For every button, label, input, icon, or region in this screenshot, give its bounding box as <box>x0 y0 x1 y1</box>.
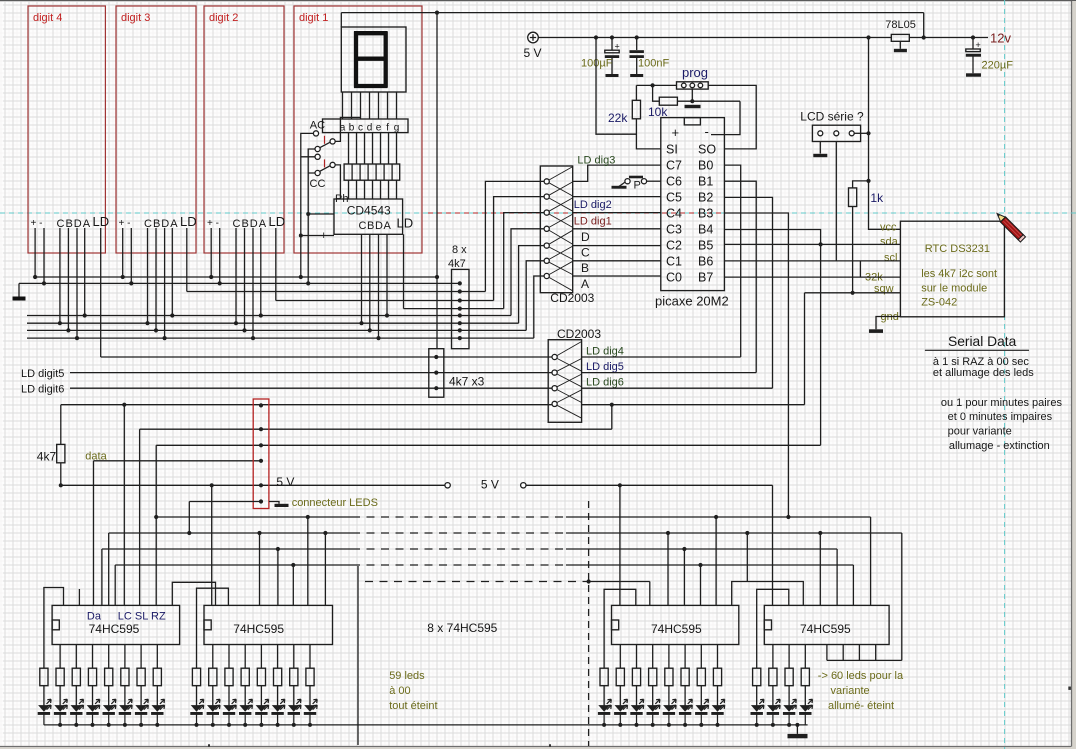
RTC gnd pin wire and ground <box>876 317 900 330</box>
7-segment display DIS1 <box>341 27 406 92</box>
around wire box1 output to R row1 <box>44 588 64 669</box>
svg-text:-: - <box>705 124 709 139</box>
wire 5V drop to SI network <box>596 38 636 135</box>
resistor R3 1k <box>853 181 869 293</box>
svg-text:scl: scl <box>884 252 897 264</box>
svg-text:LD: LD <box>269 214 286 229</box>
svg-text:et allumage des leds: et allumage des leds <box>933 367 1034 379</box>
svg-text:+ -: + - <box>207 218 219 229</box>
svg-text:CBDA: CBDA <box>233 218 268 230</box>
switch SW2 <box>315 154 320 159</box>
rail LD dig6 net <box>70 387 552 389</box>
svg-text:B1: B1 <box>698 175 713 189</box>
74HC595 U6 box <box>204 605 333 644</box>
svg-text:P: P <box>634 180 641 192</box>
svg-text:CD2003: CD2003 <box>550 291 594 305</box>
svg-text:22k: 22k <box>608 111 628 125</box>
digit1 + pin wire to + rail <box>300 236 302 278</box>
digit1 LD pin wire <box>403 234 405 308</box>
rail 5V distribution right <box>521 483 526 488</box>
svg-text:5 V: 5 V <box>481 478 499 492</box>
digit3 LD pin wire to its rail <box>186 228 188 292</box>
svg-text:CD2003: CD2003 <box>557 327 601 341</box>
svg-text:5 V: 5 V <box>524 46 542 60</box>
rail connector pin3 net <box>156 445 820 605</box>
svg-text:10k: 10k <box>648 105 668 119</box>
mouse pencil cursor <box>994 211 1025 242</box>
wire prog pin1 net <box>636 84 676 86</box>
svg-text:CC: CC <box>310 178 326 190</box>
rail connector pin6 net <box>189 502 261 534</box>
red dashed print-margin segment <box>428 212 788 214</box>
svg-text:+: + <box>976 40 981 50</box>
bus row 533 <box>109 533 352 605</box>
vcc vertical from 5V rail <box>869 38 901 230</box>
svg-text:LD digit5: LD digit5 <box>21 368 64 380</box>
svg-text:B4: B4 <box>698 223 713 237</box>
svg-text:allumage - extinction: allumage - extinction <box>949 440 1050 452</box>
svg-text:C0: C0 <box>666 271 682 285</box>
+ rail <box>35 276 437 278</box>
svg-text:f: f <box>386 123 389 134</box>
rail B bus <box>27 329 526 331</box>
svg-text:SO: SO <box>698 143 716 157</box>
svg-text:220µF: 220µF <box>982 60 1014 72</box>
LED common cathode rail <box>44 724 808 726</box>
LCD pin1 ground <box>819 142 821 154</box>
canvas right border <box>1072 1 1076 749</box>
bus row 581 <box>365 581 589 583</box>
5V rail wire <box>538 37 891 39</box>
svg-text:CBDA: CBDA <box>57 218 92 230</box>
svg-text:C3: C3 <box>666 223 682 237</box>
digit4 LD pin wire <box>100 228 102 357</box>
svg-text:LD dig1: LD dig1 <box>574 216 612 228</box>
black dashed page-split vertical (bottom) <box>588 501 590 746</box>
bus row 517 (solid-dash-solid) <box>156 516 352 518</box>
svg-text:LD: LD <box>397 216 414 231</box>
svg-text:LC SL RZ: LC SL RZ <box>118 611 166 623</box>
ground GND1 <box>18 283 20 296</box>
wire LD dig5 row to B1 <box>582 372 757 374</box>
svg-text:+ -: + - <box>31 218 43 229</box>
5V supply symbol <box>528 32 539 43</box>
74HC595 U5 box <box>52 605 180 644</box>
digit 2 red box <box>204 6 284 253</box>
capacitor C2 100nF <box>636 38 638 75</box>
digit4 pin wires down to rails <box>35 228 85 338</box>
CD2003 U3 box <box>540 166 572 293</box>
canvas bottom border <box>0 747 1072 749</box>
picaxe right side wires B0-B3 <box>724 165 788 517</box>
LCD pin2 serial wire <box>835 142 837 261</box>
digit 4 red box <box>28 6 105 253</box>
bus row 565 <box>115 565 352 605</box>
svg-text:prog: prog <box>682 65 708 80</box>
wire LCD pin3 to vcc vertical <box>854 132 868 134</box>
resistor + LED columns group4 <box>751 645 813 725</box>
wire pin1 net drop to 74HC595 <box>123 405 125 606</box>
svg-text:g: g <box>394 123 400 134</box>
svg-text:variante: variante <box>831 685 870 697</box>
cyan dashed page-split horizontal line <box>0 212 1076 214</box>
wire C4 row <box>573 212 661 214</box>
svg-text:LD dig4: LD dig4 <box>586 346 624 358</box>
svg-text:d: d <box>367 123 373 134</box>
svg-text:A: A <box>581 277 589 291</box>
svg-text:D: D <box>581 230 590 244</box>
wire C5 row <box>573 196 661 198</box>
svg-text:8 x 74HC595: 8 x 74HC595 <box>427 621 497 635</box>
capacitor C1 100uF <box>611 38 613 75</box>
CD2003 U4 internal driver diagonals <box>557 342 582 419</box>
svg-text:B7: B7 <box>698 271 713 285</box>
svg-text:CBDA: CBDA <box>144 218 179 230</box>
svg-text:12v: 12v <box>990 31 1011 46</box>
svg-text:4k7 x3: 4k7 x3 <box>449 375 485 389</box>
resistor R4 4k7 <box>57 444 65 462</box>
svg-text:ZS-042: ZS-042 <box>921 297 957 309</box>
svg-text:74HC595: 74HC595 <box>233 622 284 636</box>
rail LD digit2 net <box>276 300 494 302</box>
cascade bridge box3-box4 <box>732 582 804 606</box>
svg-text:allumé- éteint: allumé- éteint <box>828 700 894 712</box>
wire 5V drop to box3 <box>619 485 621 605</box>
wires network to CD4543 <box>349 180 397 199</box>
svg-text:C2: C2 <box>666 239 682 253</box>
svg-text:vcc: vcc <box>880 222 897 234</box>
svg-text:78L05: 78L05 <box>885 19 916 31</box>
bus row 549 <box>102 549 352 605</box>
wire LD dig4 row to B0 <box>582 356 741 358</box>
svg-text:59 leds: 59 leds <box>389 670 425 682</box>
svg-text:Da: Da <box>87 611 102 623</box>
svg-text:digit 3: digit 3 <box>121 12 150 24</box>
svg-text:CD4543: CD4543 <box>347 204 391 218</box>
resistor pack 4k7 x3 RN3 <box>429 349 444 398</box>
cyan dashed page-split vertical line <box>1004 0 1006 749</box>
digit2 pin wires down to rails <box>211 228 261 338</box>
svg-text:4k7: 4k7 <box>448 258 466 270</box>
svg-text:C: C <box>581 246 590 260</box>
rail LD dig5 net <box>70 372 552 374</box>
svg-text:Ph: Ph <box>335 193 348 205</box>
svg-text:digit 4: digit 4 <box>33 12 62 24</box>
svg-text:digit 2: digit 2 <box>209 12 238 24</box>
wire 5V drop to box2 <box>211 485 213 605</box>
wire input4 row to sqw <box>582 404 805 406</box>
rail connector pin2 net <box>140 429 612 605</box>
rail LD digit3 net <box>187 291 486 293</box>
around wire box4 output <box>757 589 789 668</box>
svg-text:74HC595: 74HC595 <box>89 622 140 636</box>
svg-text:connecteur LEDS: connecteur LEDS <box>292 497 378 509</box>
svg-text:LD dig2: LD dig2 <box>574 199 612 211</box>
svg-text:100µF: 100µF <box>581 58 613 70</box>
svg-text:CBDA: CBDA <box>359 220 392 232</box>
wire 12v input <box>909 37 988 39</box>
svg-text:B6: B6 <box>698 255 713 269</box>
rail C bus <box>27 322 519 324</box>
svg-text:picaxe 20M2: picaxe 20M2 <box>655 294 729 309</box>
- rail <box>19 282 460 284</box>
digit 3 red box <box>116 6 196 253</box>
mystery vertical near text <box>357 566 359 745</box>
rail LD dig4 net <box>101 356 552 358</box>
junction dots on 5V rail <box>594 35 871 39</box>
rail connector pin1 net <box>61 405 552 445</box>
digit1 CBDA pin wires down to rails <box>362 234 388 338</box>
svg-text:8 x: 8 x <box>452 244 467 256</box>
svg-text:AC: AC <box>310 120 325 132</box>
svg-text:b: b <box>349 123 355 134</box>
CD2003 U4 output circles <box>552 354 557 359</box>
svg-text:+ -: + - <box>119 218 131 229</box>
wire C2 row <box>573 245 661 247</box>
svg-text:pour variante: pour variante <box>948 426 1012 438</box>
svg-text:B5: B5 <box>698 239 713 253</box>
CD4543 U2 <box>334 199 403 234</box>
svg-text:LD: LD <box>93 214 110 229</box>
wire C0 row <box>573 275 661 277</box>
wire sqw row <box>805 293 901 405</box>
display segment pins <box>343 92 397 119</box>
switch SW1 (AC/CC select a) <box>313 131 318 136</box>
svg-text:B0: B0 <box>698 159 713 173</box>
svg-text:LD dig3: LD dig3 <box>577 155 615 167</box>
resistor network RN1 (7 in line) <box>344 164 400 180</box>
svg-text:SI: SI <box>666 143 678 157</box>
connecteur LEDS red box <box>253 399 269 509</box>
svg-text:74HC595: 74HC595 <box>800 622 851 636</box>
digit2 LD pin wire to its rail <box>275 228 277 301</box>
74HC595 U8 box <box>764 605 889 644</box>
svg-text:RTC DS3231: RTC DS3231 <box>925 243 990 255</box>
rail A bus <box>27 315 511 317</box>
svg-text:sur le module: sur le module <box>921 283 987 295</box>
wire switch throws to +/- rails <box>301 133 334 235</box>
12v drop wire to 4k7x3 common <box>436 13 438 349</box>
svg-text:C6: C6 <box>666 175 682 189</box>
picaxe 20M2 U1 box <box>661 118 725 291</box>
svg-text:digit 1: digit 1 <box>299 12 328 24</box>
svg-text:e: e <box>376 123 382 134</box>
12v top rail <box>341 13 923 38</box>
svg-text:5 V: 5 V <box>276 475 294 489</box>
digit3 pin wires down to rails <box>123 228 173 338</box>
svg-text:c: c <box>358 123 363 134</box>
CD2003 U3 output circles <box>544 179 549 279</box>
rail LD digit1 net <box>404 308 504 310</box>
capacitor C3 220uF <box>972 38 974 74</box>
svg-text:B2: B2 <box>698 191 713 205</box>
LCD header J2 <box>812 125 860 141</box>
svg-text:C1: C1 <box>666 255 682 269</box>
svg-text:ou 1 pour minutes paires: ou 1 pour minutes paires <box>941 397 1063 409</box>
svg-text:1k: 1k <box>870 191 884 205</box>
cascade bridge box1-box2 <box>172 582 215 605</box>
CD2003 U3 internal driver diagonals <box>549 167 573 291</box>
wire B6 / scl row <box>724 260 900 262</box>
wires a-g box to resistor network <box>349 133 397 164</box>
rail data net <box>94 461 262 606</box>
svg-text:B: B <box>581 261 589 275</box>
ground bar under prog <box>685 105 701 108</box>
stair wires rails up to CD2003 outputs <box>485 181 544 338</box>
wire B7 / 32k row <box>724 276 900 278</box>
svg-text:LD digit6: LD digit6 <box>21 384 64 396</box>
wire SO to prog pin3 <box>708 85 756 148</box>
svg-text:LD: LD <box>180 214 197 229</box>
rail 5V distribution left <box>61 484 445 486</box>
pushbutton P <box>625 179 630 184</box>
svg-text:+: + <box>615 42 620 52</box>
svg-text:4k7: 4k7 <box>37 450 57 464</box>
window top border <box>0 0 1076 2</box>
wire pushbutton to C6 <box>647 180 661 182</box>
wire C3 row <box>573 228 661 230</box>
resistor + LED columns group2 <box>190 645 317 725</box>
svg-text:-> 60 leds pour la: -> 60 leds pour la <box>818 670 904 682</box>
resistor + LED columns group1 <box>38 645 165 725</box>
svg-text:sda: sda <box>880 236 899 248</box>
rail D bus <box>27 337 534 339</box>
svg-text:74HC595: 74HC595 <box>651 622 702 636</box>
svg-text:LCD série ?: LCD série ? <box>800 110 864 124</box>
wire C7 to driver (jog) <box>573 165 661 181</box>
wire 0V to picaxe minus <box>711 101 740 134</box>
resistor + LED columns group3 <box>598 645 725 725</box>
digit 1 red box <box>294 6 422 253</box>
around wire box2 output <box>197 588 229 668</box>
svg-text:C7: C7 <box>666 159 682 173</box>
svg-text:B3: B3 <box>698 207 713 221</box>
RTC DS3231 module box <box>900 221 1004 317</box>
svg-text:+: + <box>672 125 680 140</box>
stub pin box1 <box>78 589 80 605</box>
wire B5 / sda row <box>724 243 900 245</box>
border tick marks <box>209 744 550 746</box>
display pin-name box a-g <box>323 119 409 133</box>
wire scl to 32k link <box>859 261 861 277</box>
junction dots digit pins on rails <box>33 275 389 340</box>
svg-text:tout éteint: tout éteint <box>389 700 437 712</box>
svg-text:LD dig5: LD dig5 <box>586 361 624 373</box>
wire branch to connector pin2 row <box>611 405 613 430</box>
wire C1 row <box>573 260 661 262</box>
74HC595 U7 box <box>612 605 739 644</box>
around wire box3 output <box>604 589 636 668</box>
digit1 - pin wire to - rail <box>307 214 309 283</box>
wire switch commons to display common / Ph <box>335 117 360 199</box>
svg-text:C4: C4 <box>666 207 682 221</box>
svg-text:les 4k7 i2c sont: les 4k7 i2c sont <box>921 268 997 280</box>
svg-text:et 0 minutes impaires: et 0 minutes impaires <box>948 411 1053 423</box>
CD2003 U4 box <box>548 340 581 423</box>
svg-text:100nF: 100nF <box>638 58 669 70</box>
connector pin6 ground stub <box>269 502 279 504</box>
unused outputs tie box4 <box>827 645 902 661</box>
svg-text:C5: C5 <box>666 191 682 205</box>
svg-text:à 00: à 00 <box>389 685 410 697</box>
ground GND bottom <box>796 725 798 734</box>
svg-text:LD dig6: LD dig6 <box>586 377 624 389</box>
wire B4 jog to sda <box>724 230 820 446</box>
wire LD dig6 row to B2 <box>582 387 773 389</box>
svg-text:Serial Data: Serial Data <box>948 334 1017 349</box>
